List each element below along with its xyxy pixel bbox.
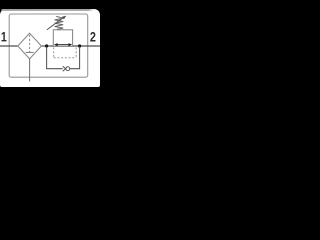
- arrowhead left: [54, 43, 58, 46]
- pilot line bottom dashed: [54, 57, 76, 59]
- regulator flow arrow line: [56, 44, 71, 46]
- wire regulator to port2: [73, 45, 100, 47]
- filter F1 diamond: [18, 33, 42, 59]
- vent nozzle circle: [66, 67, 70, 71]
- regulator R1 body: [53, 30, 72, 47]
- node A junction dot: [45, 44, 48, 47]
- port 1 label: [2, 32, 7, 41]
- filter element dashed line: [29, 35, 31, 52]
- adjustment arrow: [47, 17, 64, 30]
- relief vent wire left leg: [47, 47, 63, 69]
- white symbol card: [0, 9, 100, 87]
- pilot line right dashed: [75, 48, 77, 58]
- spring: [55, 16, 64, 29]
- port 2 label: [90, 32, 95, 42]
- enclosure box: [9, 14, 88, 77]
- pilot line left dashed: [53, 48, 55, 58]
- node B junction dot: [78, 44, 81, 47]
- vent chevron arrow: [63, 66, 66, 71]
- water separator chord: [26, 51, 34, 53]
- condensate drain stub: [29, 59, 31, 82]
- wire port1 to filter: [0, 45, 18, 47]
- adjustment arrowhead: [62, 16, 66, 20]
- relief vent wire right leg: [70, 47, 80, 69]
- arrowhead right: [69, 43, 73, 46]
- wire filter to regulator: [41, 45, 53, 47]
